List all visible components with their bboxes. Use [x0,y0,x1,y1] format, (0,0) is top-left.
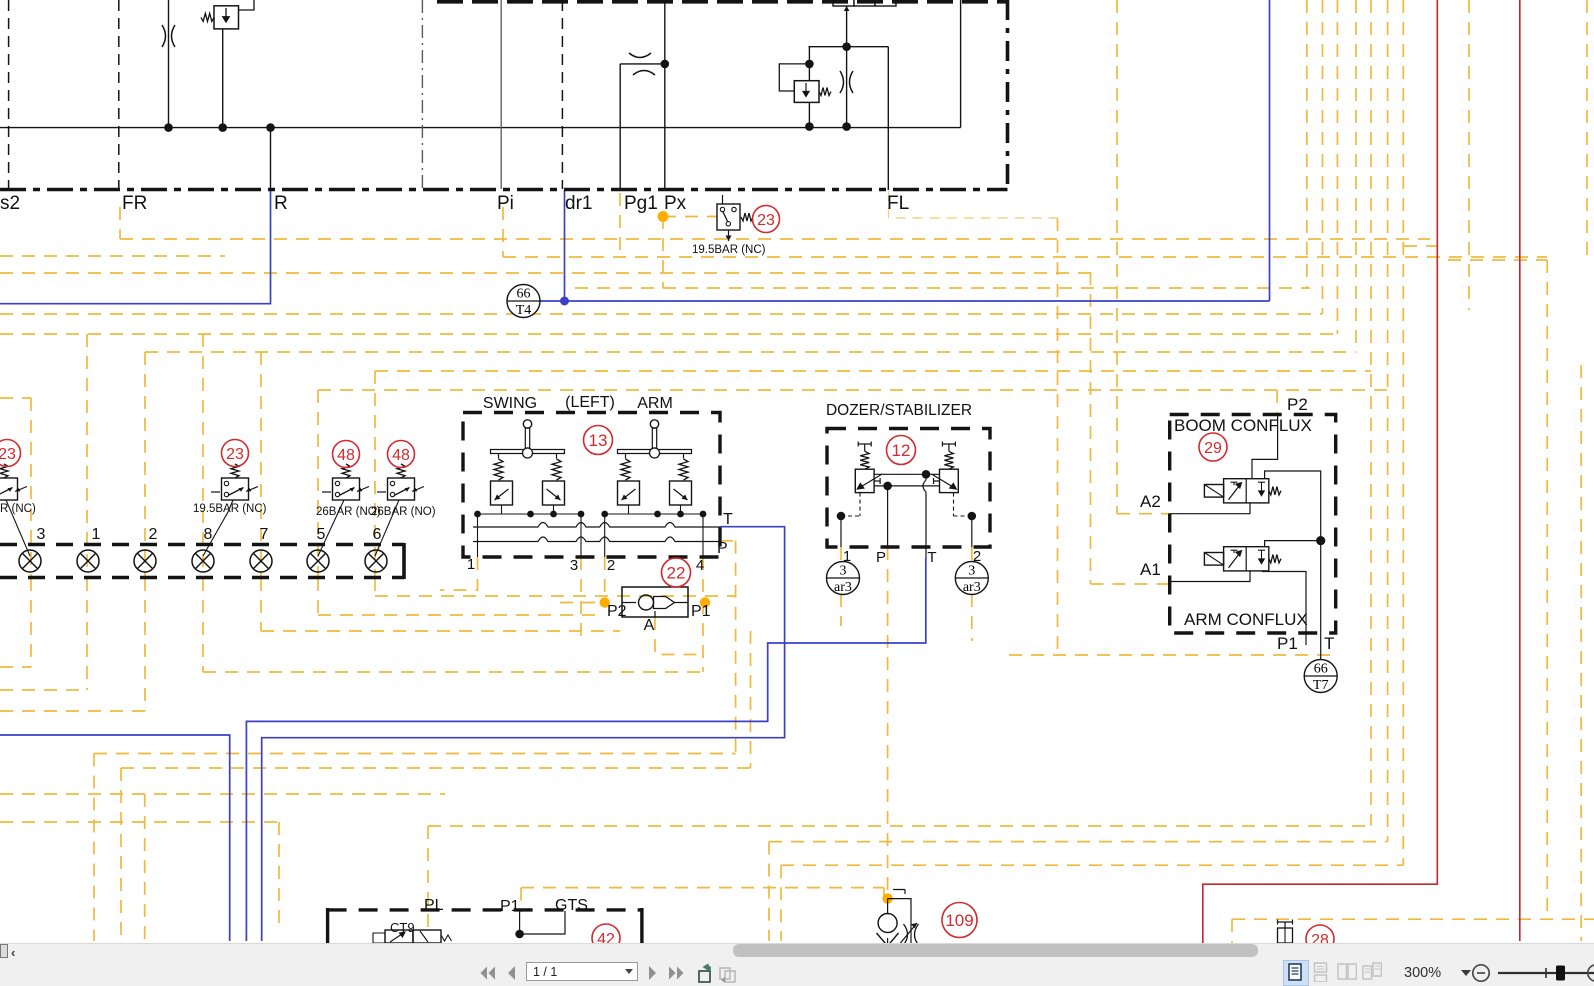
vertical scroll view icon [1313,962,1328,982]
label circle 48 [388,441,415,468]
pilot vertical x769 [768,842,770,941]
svg-text:A2: A2 [1140,492,1161,511]
wire dash-dot gray column x422 [421,0,423,189]
GTS block left edge [326,908,329,943]
blue riser x1269 [1269,0,1271,301]
svg-text:48: 48 [337,447,355,464]
main block boundary bottom edge [0,188,1008,192]
wire x846 orifice branch [846,47,848,127]
pressure switch S2 (19.5BAR NC) [222,478,249,500]
wire 109 lever [888,890,911,944]
junction dots dozer [837,512,846,521]
DOZER/STABILIZER block border [827,429,990,548]
orifice O2 on y64 [629,53,651,58]
proportional valve left (dozer) [855,469,874,492]
wire riser x960 [960,0,962,128]
pilot vertical x750 [750,631,752,768]
svg-text:dr1: dr1 [565,193,592,214]
pilot line horizontal y390 [318,389,1388,391]
wire Pg1-Px link y64 [620,63,665,65]
GTS block top border [328,908,642,911]
label circle 28 [1306,925,1334,953]
svg-text:3: 3 [840,564,847,579]
pilot vertical x145 low [144,794,146,941]
svg-text:66: 66 [1314,662,1328,677]
svg-text:(LEFT): (LEFT) [565,394,615,411]
FR column dashed [118,0,120,189]
svg-text:7: 7 [260,526,269,543]
svg-text:3: 3 [968,564,975,579]
svg-text:ar3: ar3 [834,580,852,595]
label circle 23 [222,440,249,467]
svg-text:T: T [927,549,936,566]
relief valve RV2 [808,64,810,81]
wire P1 [1262,572,1306,646]
zoom out button [1471,963,1491,983]
wire RV1 to signal line [222,29,224,128]
wire dozer port1 [840,547,842,562]
orifice O1 on x168 [162,25,166,47]
svg-text:4: 4 [696,557,704,574]
wire Pg1 column x620 [619,64,621,189]
dozer pilot dashes left [841,493,860,516]
pilot line y865 [781,864,1403,866]
svg-text:P1: P1 [500,898,520,915]
pilot line y768 long [121,767,751,769]
pilot line y794 [0,793,445,795]
wire Px pilot vertical [662,216,664,288]
test point 7 [250,550,272,572]
svg-text:T7: T7 [1313,678,1329,693]
pilot vertical x1581 [1580,365,1582,941]
node circle 3/ar3 [827,562,860,595]
pilot vertical x736 (P route) [735,541,737,754]
pilot stub y398 left [0,397,31,399]
pressure switch S4 (26BAR NO) [388,478,415,500]
wire FL column x888 [887,47,889,190]
pilot vertical x1090 to A1 [1090,272,1092,584]
wire gray Pi column x501 [500,0,502,189]
wire swing port2 to shuttle P2 [604,557,606,603]
blue line 3 [0,735,230,941]
prev page button [505,965,517,981]
joystick pilot valve ARM [650,420,658,428]
pilot line Pi net horizontal [503,256,1547,258]
node R blue line [0,190,271,304]
svg-text:19.5BAR (NC): 19.5BAR (NC) [193,503,267,515]
pilot line horizontal y334 [0,333,1340,335]
pilot riser x1307 [1306,0,1308,288]
junction blue dot dr1/T4 [560,297,569,306]
wire RV2 to signal [808,102,810,126]
wire FR vertical stub [119,207,121,239]
pilot line y655 right of dozer [1009,654,1336,656]
main block boundary top edge [437,0,1007,4]
pilot line top right connector [1448,259,1547,261]
pilot riser x1388 long [1387,0,1389,842]
joystick pilot valve SWING [523,420,531,428]
pilot column x87 [86,334,88,578]
svg-text:FR: FR [122,193,147,214]
shuttle valve SV22 body [622,587,688,617]
pilot vertical x1117 to A2 [1116,0,1118,514]
svg-text:T4: T4 [516,303,532,318]
shuttle valve internals [622,602,688,604]
BOOM/ARM CONFLUX block border [1170,415,1336,634]
pilot riser x1469 [1468,0,1470,310]
test point 3 [19,550,41,572]
pilot riser x1337 [1336,0,1338,334]
svg-text:P: P [717,540,728,557]
wire S4 to test point 6 [375,500,399,556]
pilot line y920 bottom right [1232,918,1594,920]
test point 6 [365,550,387,572]
pilot line y826 [428,825,1371,827]
variable throttle 109 [904,924,919,945]
svg-text:PL: PL [424,897,444,914]
svg-text:ARM CONFLUX: ARM CONFLUX [1184,610,1308,629]
pilot line Px net horizontal y288 [575,287,1310,289]
pilot line y256 left piece [0,255,225,257]
wire Pi vertical stub [502,207,504,257]
label circle 22 [662,558,691,587]
test point 1 [77,550,99,572]
svg-text:CT9: CT9 [390,920,415,935]
pilot column x261 [260,352,262,578]
directional valve DV1 top (partial) [833,0,854,6]
conflux valve V2 (arm) [1224,547,1269,571]
pilot vertical x1232 [1231,919,1233,943]
zoom slider [1494,962,1594,984]
svg-text:6: 6 [373,526,382,543]
wire A1 [1170,571,1250,582]
svg-text:1: 1 [467,556,475,573]
label circle 12 [887,436,916,465]
svg-text:42: 42 [597,931,615,943]
pilot vertical x121 [120,768,122,941]
svg-text:23: 23 [226,446,244,463]
pilot column x145 [144,352,146,578]
orifice O3 on x846 [840,71,844,93]
test point 8 [192,550,214,572]
wire S3 to test point 5 [318,500,344,556]
label circle 23 [0,440,21,467]
dozer inner T line [874,473,939,475]
svg-text:R: R [274,193,288,214]
pilot line GTS P1 feed y888 [521,887,884,889]
wire dashed dr1 column x562 [561,0,563,189]
pilot riser x1322 [1322,0,1324,314]
pilot line y822 [0,821,279,823]
port drop lines inside block [478,514,704,557]
label circle 29 [1199,433,1227,461]
pilot vertical x521 P1 feed [520,888,522,912]
pilot column x203 [202,334,204,578]
valve CT9 (partial) [385,930,413,943]
node circle 66/T4 [507,285,540,318]
pilot line horizontal y371 [375,370,1371,372]
test point 2 [134,550,156,572]
wire signal line y127 [0,127,961,129]
last page button [668,965,685,981]
pilot vertical x1547 [1546,260,1548,920]
svg-text:1: 1 [843,548,851,565]
wire dozer P port long [887,547,889,899]
pilot vertical x781 [780,865,782,941]
node Px orange junction [658,211,669,222]
svg-text:2: 2 [149,526,158,543]
svg-text:BOOM CONFLUX: BOOM CONFLUX [1174,416,1312,435]
node orange junction at 109 [882,893,892,903]
svg-text:s2: s2 [0,193,20,214]
pilot vertical x94 [93,754,95,942]
pilot vertical x428 PL feed [427,826,429,930]
s2 column dashed [8,0,10,189]
svg-text:Pi: Pi [497,193,514,214]
pilot stub right x1404-1437 [1404,245,1437,247]
svg-text:109: 109 [945,911,973,930]
rotate pages icon [696,964,714,983]
svg-text:26BAR (NO): 26BAR (NO) [371,506,436,518]
pilot line ladder: FR net horizontal [120,238,1430,240]
svg-text:22: 22 [667,564,686,583]
main block boundary right edge [1006,0,1010,190]
single page view icon (active) [1283,960,1309,986]
wire A2 [1170,503,1250,514]
wire S2 to test point 8 [203,500,233,556]
svg-text:ARM: ARM [637,395,673,412]
label circle 42 [592,924,620,952]
pilot line horizontal y273 [0,272,1090,274]
pilot riser x1371 long [1370,0,1372,826]
book view icon [1362,962,1382,982]
svg-text:P: P [876,549,886,566]
wire dozer port2 [971,547,973,562]
pilot vertical x279 [278,822,280,928]
pilot line shuttle A stub [655,617,703,655]
wire valve1 T to right bus [1265,471,1321,541]
node dr1 blue vertical [564,190,566,301]
duplicate page icon (disabled) [719,964,737,983]
gauge port strip border bottom [0,576,404,580]
svg-text:23: 23 [0,446,16,463]
wire orifice column x168 [168,0,170,128]
svg-text:48: 48 [392,447,410,464]
wire Px column x664 [664,0,666,189]
GTS block right edge [640,908,643,943]
label circle 23 [753,206,780,233]
label circle 48 [333,441,360,468]
red line right 1 [1203,0,1438,943]
pilot column x375 [374,371,376,578]
label circle 109 [942,903,977,938]
gauge port strip right end [402,543,406,579]
pilot riser x1356 [1355,0,1357,352]
wire Pg1 vertical stub [619,193,621,259]
svg-text:5: 5 [317,526,326,543]
svg-text:P1: P1 [691,603,711,620]
node circle 66/T7 [1304,660,1337,693]
wire swing port3 [580,557,582,645]
wire arm port4 through shuttle P1 [702,557,704,672]
P bus inside block [473,537,720,542]
accumulator symbol near 28 [1278,920,1293,929]
next page button [647,965,659,981]
label circle 13 [584,426,613,455]
svg-text:ar3: ar3 [963,580,981,595]
check valve CV109 [887,899,889,913]
pilot line A2 feed [1117,513,1170,515]
wire DV1 down [846,6,848,47]
svg-text:R (NC): R (NC) [0,503,36,515]
first page button [479,965,496,981]
pilot line horizontal y314 [0,313,1322,315]
blue line dozer T drain [246,558,925,941]
pilot vertical right edge x1587 [1586,0,1588,257]
svg-text:2: 2 [607,557,615,574]
pilot line horizontal y352 [145,351,1356,353]
pilot vertical x1057 (FL net down) [1057,218,1059,655]
pilot riser x1403 long [1402,0,1404,865]
wire swing port1 [440,557,478,590]
svg-text:P2: P2 [607,603,627,620]
test point 5 [307,550,329,572]
svg-text:23: 23 [757,212,775,229]
svg-text:SWING: SWING [483,395,537,412]
svg-text:GTS: GTS [555,897,588,914]
pilot line y753 long [94,753,736,755]
relief valve RV1 [214,6,239,29]
svg-text:13: 13 [589,431,608,450]
relief valve RV2 pilot loop [779,64,809,91]
svg-text:12: 12 [892,441,911,460]
svg-text:P2: P2 [1287,395,1308,414]
pilot line FL net pale [889,191,1058,218]
wire P2 into valve1 [1252,415,1278,479]
svg-text:66: 66 [517,287,531,302]
pressure switch S1 (cut at left edge) [0,478,18,500]
svg-text:P1: P1 [1277,634,1298,653]
wire x809 down [808,47,810,64]
pressure switch S5 at Px (rotated) [717,204,740,230]
svg-text:2: 2 [973,548,981,565]
blue line swing T drain [262,527,785,941]
wire P1 into GTS [520,911,565,934]
svg-text:3: 3 [570,557,578,574]
pilot column x318 [317,390,319,578]
pilot line y842 [769,841,1388,843]
wire Px to pressure switch [663,216,717,218]
red line right 2 [1519,0,1521,941]
svg-text:28: 28 [1311,932,1329,943]
node shuttle P2 [600,597,610,607]
svg-text:3: 3 [37,526,46,543]
proportional valve right (dozer) [940,469,959,492]
zoom percent label [1404,965,1441,981]
svg-text:29: 29 [1204,440,1222,457]
dozer pilot dashes right [954,493,972,516]
wire R column below dot [270,128,272,190]
two page view icon [1337,962,1357,982]
junction dot T bus [1316,536,1325,545]
conflux valve V1 (boom) [1224,479,1269,503]
pilot column x31 [30,398,32,578]
node circle 3/ar3 [955,562,988,595]
wire y46 link [809,46,889,48]
pilot line shuttle P2 stub [560,602,605,604]
svg-text:T: T [723,511,733,528]
pilot line SWING P port stub [720,540,736,542]
svg-text:FL: FL [887,193,909,214]
blue tank line T4 horizontal [540,300,1270,302]
svg-text:Px: Px [664,193,687,214]
svg-text:8: 8 [204,526,213,543]
svg-text:DOZER/STABILIZER: DOZER/STABILIZER [826,402,972,419]
SWING/ARM block border [463,413,720,558]
svg-text:T: T [1324,634,1334,653]
svg-text:A: A [644,617,655,634]
wire valve2 top to junction [1265,541,1321,547]
node shuttle P1 [700,597,710,607]
junction dots top [164,123,173,132]
wire S1 to test point 3 [6,500,30,556]
pilot line A1 feed [1091,583,1170,585]
svg-text:19.5BAR (NC): 19.5BAR (NC) [692,244,766,256]
page number box [526,962,638,981]
wire T down to T7 [1320,541,1322,659]
svg-text:1: 1 [92,526,101,543]
pilot vertical BOOM P2 feed [1276,390,1278,415]
pressure switch S3 (26BAR NO) [333,478,360,500]
svg-text:A1: A1 [1140,560,1161,579]
T bus inside block [473,523,720,528]
zoom in button (cut) [1584,963,1594,983]
dozer inner P line [874,485,939,487]
svg-text:Pg1: Pg1 [624,193,658,214]
gauge port strip border top [0,543,404,547]
horizontal scrollbar thumb [733,944,1258,957]
sidebar corner button [0,944,8,958]
